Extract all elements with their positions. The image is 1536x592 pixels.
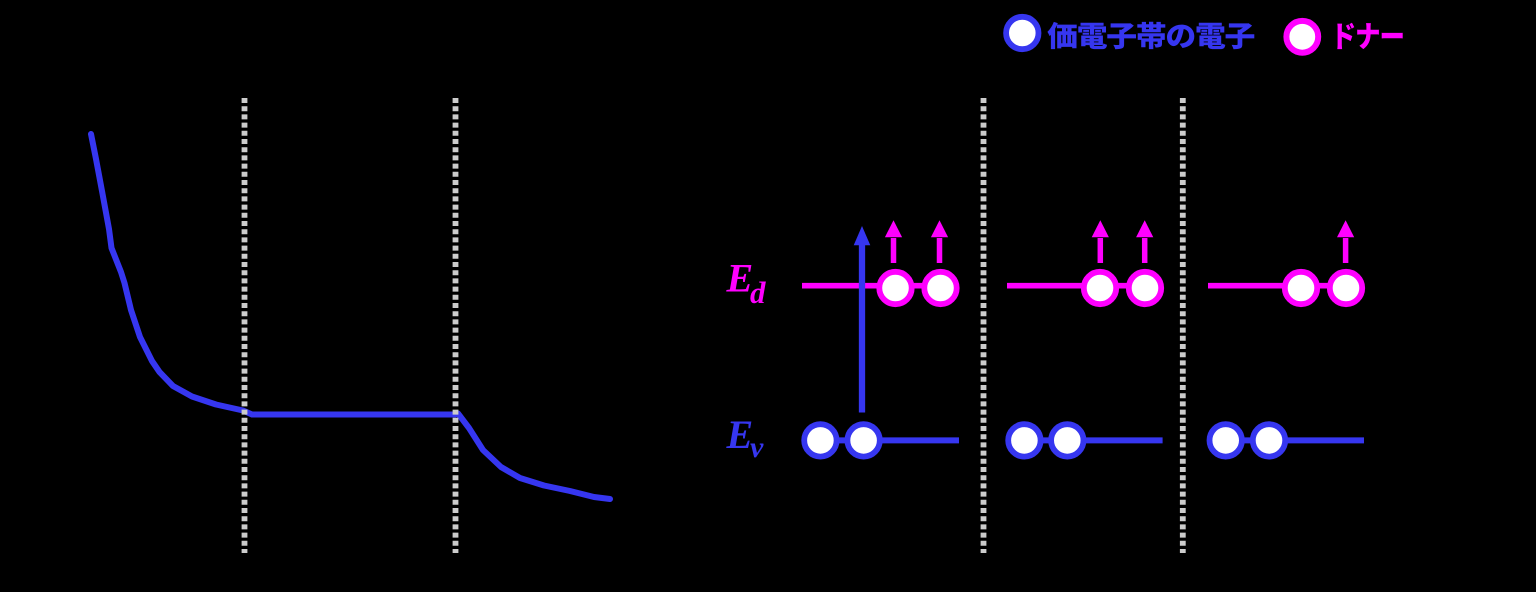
svg-text:d: d: [750, 275, 766, 310]
donor circles panel 3: [1285, 272, 1317, 304]
valence electron circles panel 2: [1008, 424, 1040, 456]
donor ionization arrow panel3: [1343, 238, 1349, 263]
donor circles panel 1: [879, 272, 911, 304]
Ed level line panel 2: [1007, 283, 1145, 289]
donor ionization arrow panel1 b: [937, 238, 943, 263]
legend: donor symbol: [1286, 21, 1318, 53]
valence electron circles panel 3: [1210, 424, 1242, 456]
donor ionization arrow panel2 a: [1098, 238, 1104, 263]
donor circles panel 2: [1084, 272, 1116, 304]
donor ionization arrow panel2 b: [1142, 238, 1148, 263]
Ev level line panel 3: [1226, 437, 1364, 443]
legend text: valence band electrons: [1047, 22, 1254, 49]
valence electron circles panel 1: [804, 424, 836, 456]
Ed level line panel 3: [1208, 283, 1346, 289]
legend: valence electron symbol: [1006, 17, 1038, 49]
Ev level line panel 1: [820, 437, 959, 443]
left graph: carrier-concentration curve: [91, 134, 610, 499]
Ed level line panel 1: [802, 283, 941, 289]
dashed boundary line 1 (left graph): [242, 98, 248, 553]
donor ionization arrow panel1 a: [891, 238, 897, 263]
dashed boundary line 4 (band diagram): [1180, 98, 1186, 553]
dashed boundary line 3 (band diagram): [981, 98, 987, 553]
svg-text:v: v: [750, 431, 764, 464]
dashed boundary line 2 (left graph): [453, 98, 459, 553]
Ev level line panel 2: [1024, 437, 1163, 443]
blue excitation arrow panel 1: [859, 244, 865, 413]
legend text: donor: [1337, 23, 1402, 49]
